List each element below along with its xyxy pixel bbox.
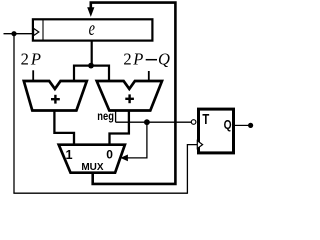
wire: Q output	[235, 124, 250, 126]
svg-text:2P: 2P	[21, 50, 41, 69]
wire: bottom horizontal	[13, 192, 187, 194]
adder right (2P-Q path)	[97, 81, 162, 111]
bubble on T input	[191, 120, 196, 125]
wire: left input to register clock	[4, 33, 33, 35]
svg-text:Q: Q	[224, 119, 232, 132]
wire: clock riser to flip-flop	[187, 145, 197, 194]
svg-text:T: T	[202, 111, 209, 128]
label: + in left adder	[51, 95, 60, 104]
wire: left adder output to MUX input 1	[54, 110, 74, 145]
register clock chevron	[34, 28, 39, 35]
wire: mux output feedback loop	[91, 3, 176, 184]
register clock section separator	[42, 20, 44, 41]
multiplexer MUX	[59, 145, 125, 173]
node: input junction dot	[11, 31, 16, 36]
register e box	[33, 19, 152, 40]
arrowhead into MUX select	[120, 155, 128, 162]
wire: 2P-Q input stub	[148, 71, 150, 81]
svg-text:2P: 2P	[123, 50, 143, 69]
svg-text:neg: neg	[97, 110, 114, 123]
wire: select drop to MUX	[128, 122, 147, 158]
wire: neg to T flip-flop input	[116, 121, 192, 123]
node: Q output terminal dot	[248, 123, 253, 128]
label: + in right adder	[125, 94, 134, 103]
svg-text:Q: Q	[158, 50, 170, 69]
wire: right adder output to MUX input 0	[110, 110, 129, 145]
node: neg junction dot	[144, 119, 150, 125]
flip-flop clock chevron	[197, 141, 202, 149]
svg-text:1: 1	[65, 148, 72, 162]
svg-text:MUX: MUX	[81, 162, 103, 173]
T flip-flop box	[199, 109, 234, 153]
wire: 2P input stub	[32, 70, 34, 81]
node: branch junction dot	[88, 63, 94, 69]
wire: register output	[91, 41, 93, 66]
adder left (2P path)	[24, 81, 87, 111]
arrowhead into register top	[87, 7, 94, 17]
wire: left vertical down	[13, 34, 15, 194]
wire: neg stub from right adder	[115, 110, 117, 122]
wire: branch to both adders	[74, 66, 109, 81]
svg-text:e: e	[89, 16, 95, 39]
svg-text:0: 0	[106, 147, 113, 161]
